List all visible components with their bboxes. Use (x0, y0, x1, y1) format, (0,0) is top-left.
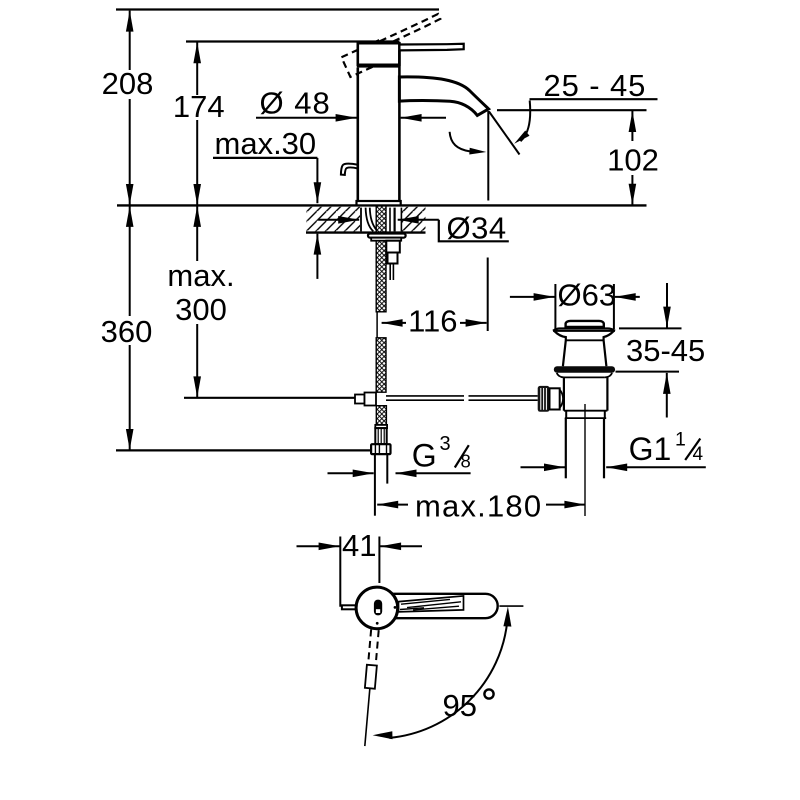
svg-text:Ø34: Ø34 (447, 211, 507, 246)
svg-text:41: 41 (342, 528, 376, 563)
svg-text:1: 1 (675, 429, 686, 451)
svg-text:G1: G1 (629, 431, 672, 467)
svg-text:102: 102 (607, 143, 659, 178)
svg-text:max.: max. (167, 258, 234, 293)
svg-text:174: 174 (173, 89, 225, 124)
svg-text:116: 116 (408, 304, 457, 339)
svg-text:4: 4 (693, 444, 704, 465)
svg-text:8: 8 (461, 451, 471, 472)
svg-text:max.180: max.180 (415, 489, 542, 524)
svg-text:300: 300 (175, 292, 227, 327)
svg-text:G: G (412, 438, 437, 474)
svg-text:max.30: max.30 (215, 126, 317, 161)
svg-text:35-45: 35-45 (626, 333, 705, 368)
svg-text:Ø63: Ø63 (558, 277, 617, 312)
svg-text:360: 360 (101, 314, 153, 349)
svg-text:3: 3 (440, 433, 451, 455)
svg-text:Ø 48: Ø 48 (260, 86, 331, 121)
svg-text:208: 208 (102, 66, 154, 101)
svg-text:25 - 45: 25 - 45 (544, 68, 647, 103)
svg-text:95: 95 (443, 688, 477, 723)
